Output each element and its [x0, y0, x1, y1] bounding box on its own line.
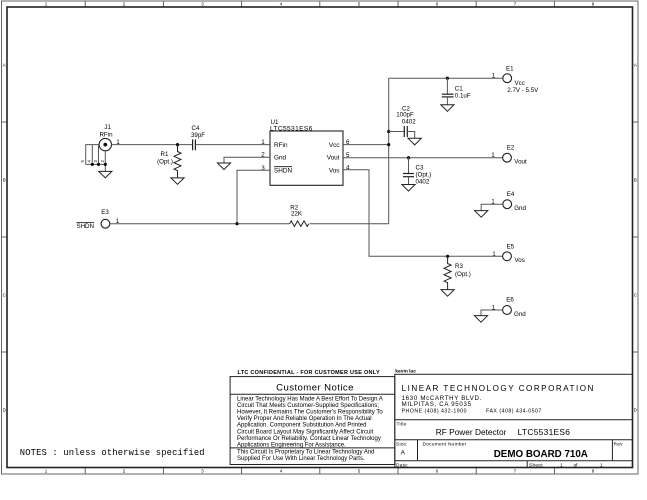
svg-text:1: 1	[491, 152, 495, 159]
svg-text:Linear Technology Has Made A B: Linear Technology Has Made A Best Effort…	[237, 396, 383, 402]
svg-text:B: B	[3, 178, 6, 183]
svg-text:E3: E3	[101, 209, 109, 216]
wire E3 to R2	[110, 223, 290, 225]
svg-text:1: 1	[492, 73, 496, 80]
wire U1 pin6 Vcc	[343, 144, 389, 146]
terminal E6	[492, 297, 527, 318]
terminal E1	[492, 65, 539, 94]
capacitor C1 0.1uF	[442, 78, 471, 105]
svg-text:Title: Title	[397, 421, 407, 427]
svg-text:This Circuit Is Proprietary To: This Circuit Is Proprietary To Linear Te…	[237, 450, 375, 456]
svg-text:Size: Size	[396, 442, 406, 448]
ground (E4)	[475, 211, 488, 218]
wire C4 to U1 pin1	[195, 144, 270, 146]
terminal E4	[491, 191, 526, 212]
wire U1 pin2 to ground	[224, 157, 270, 163]
svg-text:Sheet: Sheet	[529, 462, 543, 468]
terminal E5	[492, 244, 525, 265]
svg-text:MILPITAS, CA 95035: MILPITAS, CA 95035	[402, 401, 472, 408]
resistor R3 (Opt.)	[444, 256, 471, 289]
capacitor C3 (Opt.)	[403, 158, 431, 186]
svg-text:(Opt.): (Opt.)	[416, 171, 432, 178]
svg-text:LTC CONFIDENTIAL - FOR CUSTOME: LTC CONFIDENTIAL - FOR CUSTOMER USE ONLY	[238, 370, 380, 376]
svg-text:FAX (408) 434-0507: FAX (408) 434-0507	[486, 408, 542, 414]
svg-text:Customer Notice: Customer Notice	[276, 383, 354, 394]
svg-text:100pF: 100pF	[396, 111, 414, 118]
svg-text:DEMO BOARD 710A: DEMO BOARD 710A	[494, 449, 588, 460]
svg-text:Applications Engineering For A: Applications Engineering For Assistance.	[237, 443, 346, 449]
svg-text:LINEAR TECHNOLOGY CORPORATION: LINEAR TECHNOLOGY CORPORATION	[402, 384, 595, 393]
svg-text:Date:: Date:	[396, 462, 409, 468]
node C1 junction	[446, 77, 449, 80]
svg-text:RFin: RFin	[274, 142, 288, 149]
svg-text:E6: E6	[506, 297, 514, 304]
svg-text:E5: E5	[507, 244, 515, 251]
svg-text:Circuit Board Layout May Signi: Circuit Board Layout May Significantly A…	[237, 429, 374, 435]
svg-text:C: C	[634, 293, 637, 298]
svg-text:(Opt.): (Opt.)	[455, 271, 471, 278]
J1 ground pins bracket	[86, 145, 106, 172]
terminal E3	[76, 209, 119, 230]
wire E4 to ground	[481, 204, 503, 210]
ground (U1 pin2)	[217, 163, 230, 170]
node R3 junction	[446, 255, 449, 258]
svg-text:2.7V - 5.5V: 2.7V - 5.5V	[507, 87, 539, 94]
svg-text:0402: 0402	[402, 119, 416, 126]
svg-text:1: 1	[492, 251, 496, 258]
svg-text:of: of	[574, 462, 579, 468]
svg-text:Gnd: Gnd	[514, 311, 526, 318]
wire R2 to Vcc vertical	[310, 223, 389, 225]
svg-text:B: B	[634, 178, 637, 183]
svg-text:R1: R1	[161, 151, 169, 158]
wire Vcc net vertical	[388, 78, 390, 224]
svg-text:39pF: 39pF	[191, 132, 205, 139]
svg-text:RFin: RFin	[99, 132, 113, 139]
svg-text:Vout: Vout	[327, 155, 340, 162]
op-amp U1 LTC5531ES6	[261, 119, 350, 186]
svg-text:Performance Or Reliability. Co: Performance Or Reliability. Contact Line…	[237, 436, 381, 442]
connector J1	[99, 124, 120, 151]
svg-text:Verify Proper And Reliable Ope: Verify Proper And Reliable Operation In …	[237, 416, 372, 422]
svg-text:Circuit That Meets Customer-Su: Circuit That Meets Customer-Supplied Spe…	[237, 403, 379, 409]
svg-text:D: D	[634, 408, 637, 413]
svg-text:Rev: Rev	[614, 442, 624, 448]
svg-text:Vos: Vos	[329, 168, 340, 175]
svg-text:R3: R3	[455, 263, 463, 270]
node Vcc pin6 junction	[387, 143, 390, 146]
svg-text:1: 1	[560, 462, 563, 468]
svg-text:Document Number: Document Number	[423, 442, 467, 448]
title block	[230, 374, 632, 467]
svg-text:J1: J1	[104, 124, 111, 131]
terminal E2	[491, 144, 527, 165]
svg-text:Vos: Vos	[515, 257, 525, 264]
svg-text:LTC5531ES6: LTC5531ES6	[270, 125, 313, 132]
svg-text:A: A	[3, 63, 6, 68]
svg-text:1: 1	[600, 462, 603, 468]
svg-text:kevin lac: kevin lac	[395, 368, 416, 374]
svg-text:Gnd: Gnd	[514, 205, 526, 212]
node Vcc C2 junction	[387, 130, 390, 133]
svg-text:E1: E1	[506, 65, 514, 72]
ground (E6)	[474, 316, 487, 323]
svg-text:22K: 22K	[291, 211, 303, 218]
svg-text:SHDN: SHDN	[274, 168, 292, 175]
ground (R3)	[441, 290, 454, 297]
node C3 junction	[407, 156, 410, 159]
resistor R1	[157, 145, 181, 178]
resistor R2 22K	[290, 204, 309, 226]
svg-text:(Opt.): (Opt.)	[157, 159, 173, 166]
svg-text:Vcc: Vcc	[329, 142, 340, 149]
svg-text:Gnd: Gnd	[274, 155, 287, 162]
ground (C1)	[441, 105, 454, 112]
svg-text:RF Power Detector: RF Power Detector	[436, 427, 507, 437]
node RFin junction	[176, 143, 179, 146]
svg-text:E4: E4	[507, 191, 515, 198]
wire U1 pin3 SHDN to E3 net	[237, 170, 270, 223]
ground (J1)	[99, 171, 112, 177]
svg-text:LTC5531ES6: LTC5531ES6	[518, 427, 571, 437]
wire U1 pin4 Vos to E5	[343, 170, 503, 256]
wire E1 Vcc	[389, 77, 503, 79]
svg-text:Application. Component Substit: Application. Component Substitution And …	[237, 423, 366, 429]
node SHDN junction	[235, 222, 238, 225]
svg-text:1: 1	[261, 139, 265, 146]
svg-text:0.1uF: 0.1uF	[455, 92, 471, 99]
ground (C3)	[402, 185, 415, 192]
svg-text:However, It Remains The Custom: However, It Remains The Customer's Respo…	[237, 410, 383, 416]
wire U1 pin5 Vout to E2	[343, 157, 503, 159]
wire E6 to ground	[481, 310, 503, 316]
ground (R1)	[171, 178, 184, 184]
capacitor C2 100pF	[389, 106, 417, 139]
svg-text:0402: 0402	[416, 178, 430, 185]
svg-text:E2: E2	[507, 144, 515, 151]
junction dots J1 pins	[91, 163, 107, 166]
svg-text:A: A	[634, 63, 637, 68]
ground (C2)	[408, 138, 421, 145]
svg-text:D: D	[3, 408, 6, 413]
svg-text:A: A	[401, 449, 406, 456]
svg-text:C: C	[3, 293, 6, 298]
svg-text:Supplied For Use With Linear T: Supplied For Use With Linear Technology …	[237, 456, 365, 462]
svg-text:SHDN: SHDN	[76, 223, 94, 230]
svg-text:PHONE (408) 432-1900: PHONE (408) 432-1900	[402, 408, 467, 414]
wire RFin net	[112, 144, 193, 146]
svg-text:Vout: Vout	[514, 159, 527, 166]
svg-text:NOTES : unless otherwise speci: NOTES : unless otherwise specified	[20, 448, 205, 458]
capacitor C4	[191, 125, 205, 150]
